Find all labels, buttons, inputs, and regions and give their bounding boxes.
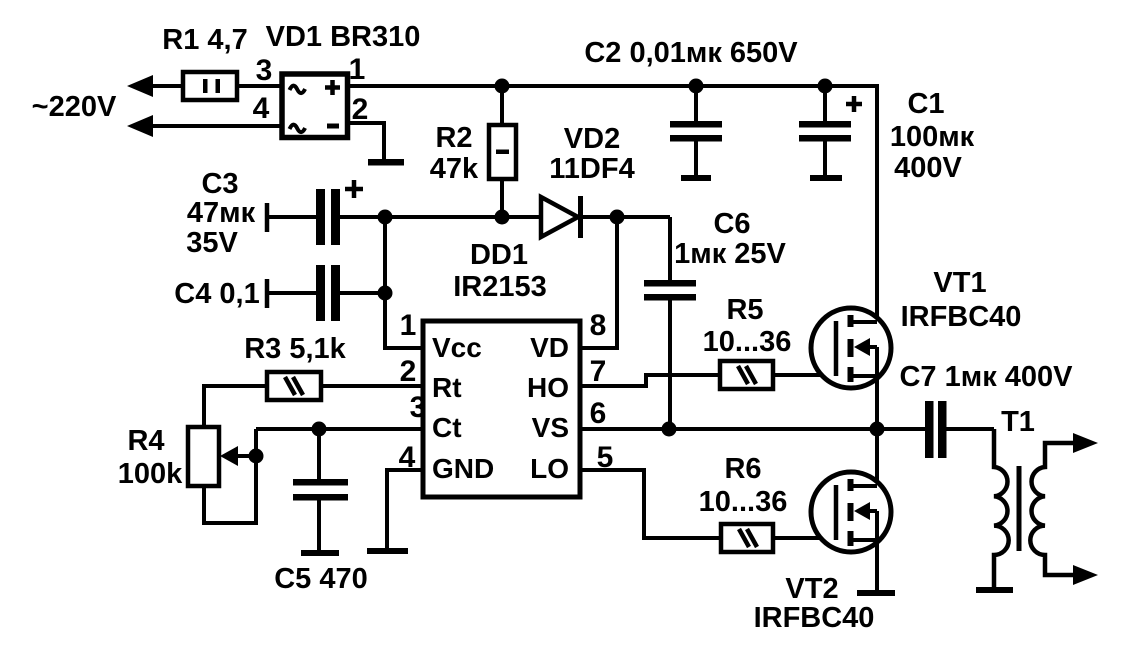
svg-text:C7 1мк 400V: C7 1мк 400V	[899, 361, 1073, 393]
svg-text:C6: C6	[713, 208, 750, 240]
svg-text:R4: R4	[127, 425, 164, 457]
svg-text:DD1: DD1	[470, 239, 528, 271]
svg-text:VD1 BR310: VD1 BR310	[266, 21, 421, 53]
svg-text:11DF4: 11DF4	[549, 153, 634, 185]
svg-text:~220V: ~220V	[32, 91, 117, 123]
svg-text:3: 3	[256, 54, 273, 87]
svg-text:Ct: Ct	[432, 412, 462, 443]
svg-text:R6: R6	[724, 453, 761, 485]
svg-text:VT1: VT1	[933, 267, 986, 299]
svg-text:1мк 25V: 1мк 25V	[674, 238, 786, 270]
svg-text:IRFBC40: IRFBC40	[754, 602, 875, 634]
svg-text:C1: C1	[907, 88, 944, 120]
svg-text:R5: R5	[726, 294, 763, 326]
svg-text:R2: R2	[435, 122, 472, 154]
svg-text:1: 1	[400, 309, 417, 342]
svg-text:10...36: 10...36	[699, 486, 788, 518]
svg-text:HO: HO	[527, 372, 569, 403]
svg-text:VT2: VT2	[785, 573, 838, 605]
svg-text:47мк: 47мк	[187, 197, 256, 229]
svg-text:100мк: 100мк	[890, 121, 975, 153]
svg-text:8: 8	[590, 309, 607, 342]
svg-text:2: 2	[400, 355, 417, 388]
svg-text:VD2: VD2	[564, 123, 620, 155]
svg-text:4: 4	[253, 92, 270, 125]
svg-text:C3: C3	[201, 168, 238, 200]
svg-text:47k: 47k	[430, 153, 479, 185]
svg-text:5: 5	[597, 441, 614, 474]
svg-text:C2 0,01мк 650V: C2 0,01мк 650V	[584, 37, 798, 69]
svg-text:7: 7	[590, 355, 607, 388]
svg-text:R3 5,1k: R3 5,1k	[244, 333, 346, 365]
svg-text:T1: T1	[1001, 406, 1035, 438]
svg-text:10...36: 10...36	[703, 326, 792, 358]
svg-text:IR2153: IR2153	[453, 271, 547, 303]
svg-text:2: 2	[352, 93, 369, 126]
svg-text:IRFBC40: IRFBC40	[901, 301, 1022, 333]
svg-text:C4 0,1: C4 0,1	[174, 278, 259, 310]
svg-text:GND: GND	[432, 453, 494, 484]
svg-text:400V: 400V	[894, 152, 962, 184]
svg-text:VS: VS	[532, 412, 569, 443]
svg-text:6: 6	[590, 397, 607, 430]
svg-text:Rt: Rt	[432, 372, 462, 403]
svg-text:LO: LO	[530, 453, 569, 484]
svg-text:C5 470: C5 470	[274, 563, 368, 595]
svg-text:35V: 35V	[186, 227, 238, 259]
svg-text:4: 4	[399, 441, 416, 474]
svg-text:1: 1	[349, 53, 366, 86]
svg-text:VD: VD	[530, 332, 569, 363]
svg-text:Vcc: Vcc	[432, 332, 482, 363]
svg-text:3: 3	[410, 391, 427, 424]
svg-text:R1 4,7: R1 4,7	[162, 24, 247, 56]
svg-text:100k: 100k	[118, 458, 183, 490]
